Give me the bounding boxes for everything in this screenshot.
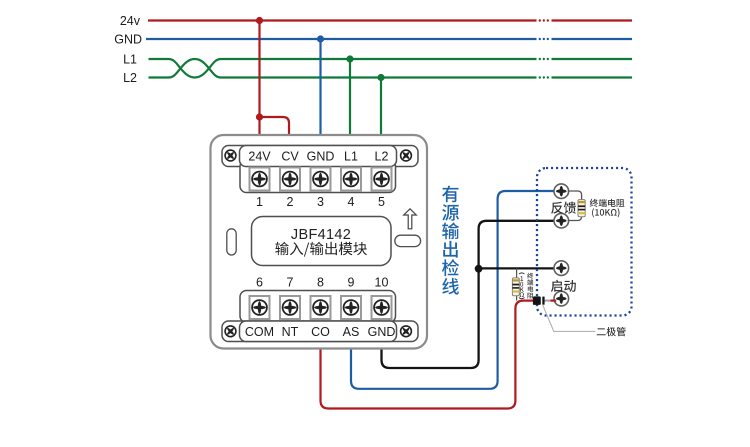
terminal screw feedback + xyxy=(554,184,569,199)
resistor R2 line-end resistor xyxy=(512,268,519,300)
heading 有源输出检线 xyxy=(442,186,458,203)
label 反馈 xyxy=(551,202,576,214)
svg-text:2: 2 xyxy=(287,195,294,209)
module centre frame xyxy=(252,217,392,266)
junction start branch xyxy=(475,265,483,273)
terminal screw feedback - xyxy=(554,213,569,228)
svg-text:L2: L2 xyxy=(123,71,137,85)
wire L1 bus (twisted pair) xyxy=(149,59,633,78)
terminal screw pin 4 xyxy=(341,168,361,191)
wire L1 drop to pin 4 xyxy=(349,59,351,136)
wire L2 bus (twisted pair) xyxy=(149,59,633,78)
terminal block bottom: label plate xyxy=(240,321,397,342)
svg-text:24v: 24v xyxy=(120,14,141,28)
wire L2 drop to pin 5 xyxy=(380,78,382,137)
corner screw bottom-left xyxy=(224,325,237,338)
wire CO pin 8 to start loop (red) xyxy=(321,301,534,409)
svg-text:GND: GND xyxy=(368,325,396,339)
right slot xyxy=(395,235,421,246)
svg-text:8: 8 xyxy=(317,276,324,290)
svg-text:AS: AS xyxy=(343,325,360,339)
terminal block top: outer strip xyxy=(222,146,418,167)
dashed zone boundary xyxy=(537,168,632,316)
label 启动 xyxy=(551,280,576,292)
wire GND drop to pin 3 xyxy=(319,39,321,136)
wire AS pin 9 to feedback + (blue) xyxy=(351,191,555,389)
terminal block bottom: screws box xyxy=(240,291,396,323)
terminal block top: screws box xyxy=(240,160,396,193)
terminal screw pin 2 xyxy=(280,168,300,191)
value label 终端电阻 xyxy=(590,199,625,207)
svg-text:3: 3 xyxy=(317,195,324,209)
module U1 JBF4142 body xyxy=(211,135,428,349)
svg-text:GND: GND xyxy=(307,150,335,164)
terminal screw pin 5 xyxy=(372,168,392,191)
corner screw bottom-right xyxy=(399,325,412,338)
svg-text:NT: NT xyxy=(282,325,299,339)
terminal screw start + xyxy=(554,261,569,276)
resistor R1 terminal resistor xyxy=(568,191,585,221)
wire GND bus xyxy=(146,38,632,40)
svg-text:JBF4142: JBF4142 xyxy=(291,227,351,243)
terminal screw start - xyxy=(554,291,569,306)
svg-text:L2: L2 xyxy=(375,150,389,164)
svg-text:CV: CV xyxy=(281,150,299,164)
value label (10KΩ) xyxy=(592,208,619,217)
terminal block top: label plate xyxy=(240,146,397,167)
wire branch to start + xyxy=(479,267,555,269)
svg-text:L1: L1 xyxy=(344,150,358,164)
diode D1 xyxy=(533,296,556,305)
svg-text:5: 5 xyxy=(378,195,385,209)
pointer to diode label xyxy=(543,305,596,332)
junction on GND bus xyxy=(317,35,324,42)
svg-text:GND: GND xyxy=(114,33,142,47)
svg-text:1: 1 xyxy=(256,195,263,209)
svg-text:CO: CO xyxy=(311,325,330,339)
terminal screw pin 3 xyxy=(311,168,331,191)
svg-text:4: 4 xyxy=(348,195,355,209)
svg-text:L1: L1 xyxy=(123,53,137,67)
svg-text:24V: 24V xyxy=(248,150,271,164)
terminal block bottom: outer strip xyxy=(222,321,418,342)
junction on L1 bus xyxy=(346,55,353,62)
terminal screw pin 7 xyxy=(280,296,300,319)
corner screw top-right xyxy=(399,149,412,162)
wire 24v bus xyxy=(148,19,632,21)
junction on L2 bus xyxy=(377,74,384,81)
junction on 24v bus xyxy=(256,17,263,24)
module label 输入/输出模块 xyxy=(275,242,367,257)
label 二极管 xyxy=(597,327,626,336)
terminal screw pin 8 xyxy=(311,296,331,319)
terminal screw pin 10 xyxy=(372,296,392,319)
terminal screw pin 6 xyxy=(250,296,270,319)
wire 24v drop to pin 1 xyxy=(258,21,260,137)
value label vertical (10KΩ) xyxy=(519,273,525,299)
terminal screw pin 9 xyxy=(341,296,361,319)
junction red branch xyxy=(256,113,263,120)
svg-text:9: 9 xyxy=(348,276,355,290)
orientation arrow xyxy=(404,209,417,229)
left slot xyxy=(227,229,236,255)
terminal screw pin 1 xyxy=(250,168,270,191)
value label vertical 终端电阻 xyxy=(527,273,533,279)
wire GND pin 10 to feedback - (black) xyxy=(382,221,556,368)
svg-text:6: 6 xyxy=(256,276,263,290)
wire branch to pin 2 CV xyxy=(260,117,290,136)
svg-text:10: 10 xyxy=(375,276,389,290)
svg-text:7: 7 xyxy=(287,276,294,290)
svg-text:COM: COM xyxy=(245,325,274,339)
corner screw top-left xyxy=(224,149,237,162)
